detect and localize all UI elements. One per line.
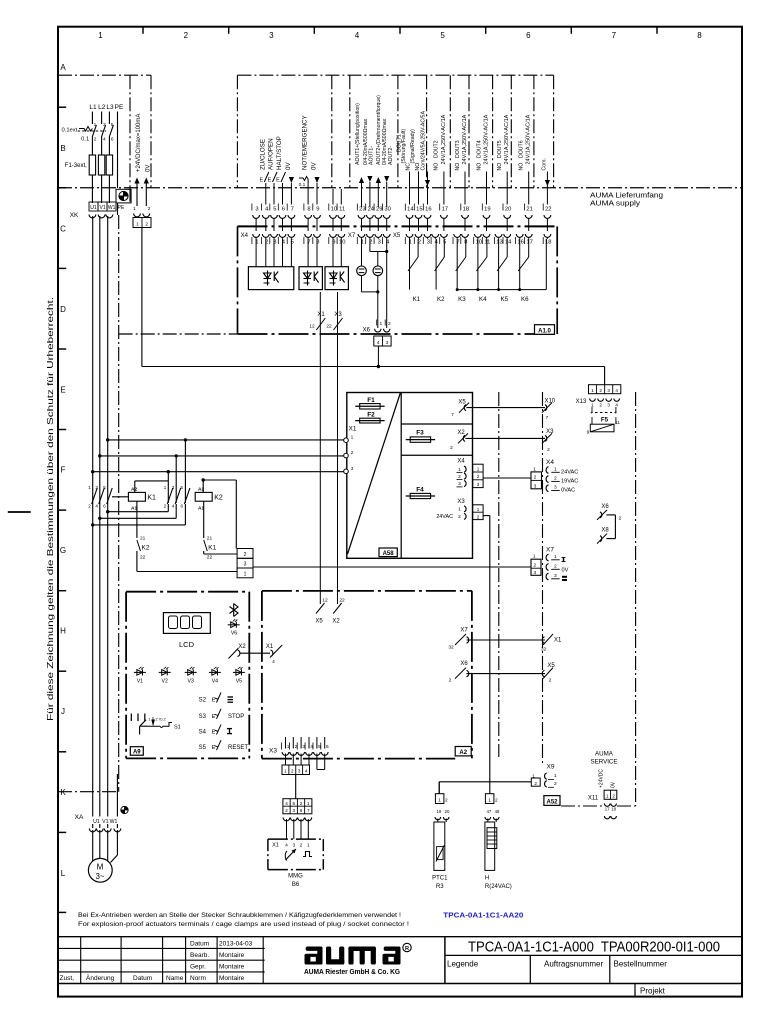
svg-text:22: 22 <box>207 555 213 561</box>
svg-text:X5: X5 <box>547 663 555 669</box>
svg-text:L2: L2 <box>98 104 106 111</box>
svg-text:A2: A2 <box>459 750 467 756</box>
svg-text:17: 17 <box>442 206 448 212</box>
svg-text:3: 3 <box>244 562 247 568</box>
svg-text:A2: A2 <box>131 486 137 492</box>
svg-text:4: 4 <box>272 659 275 665</box>
svg-text:1: 1 <box>379 321 382 327</box>
svg-text:10: 10 <box>339 240 345 246</box>
svg-text:30: 30 <box>384 206 390 212</box>
svg-text:0.1: 0.1 <box>299 182 306 188</box>
svg-text:11: 11 <box>339 206 345 212</box>
svg-text:6: 6 <box>526 31 531 40</box>
svg-text:21: 21 <box>140 536 146 542</box>
svg-text:X1: X1 <box>317 312 325 318</box>
svg-text:24V/1A,250V-AC/1A: 24V/1A,250V-AC/1A <box>526 114 532 164</box>
svg-text:14: 14 <box>407 206 414 212</box>
svg-text:NOT/EMERGENCY: NOT/EMERGENCY <box>302 115 309 170</box>
svg-text:2: 2 <box>534 475 537 481</box>
svg-text:1: 1 <box>307 843 310 849</box>
svg-text:7: 7 <box>546 415 549 421</box>
svg-text:Name: Name <box>166 975 184 982</box>
svg-text:+24VDC: +24VDC <box>599 769 605 788</box>
svg-text:S5: S5 <box>199 745 207 751</box>
svg-text:3: 3 <box>103 122 106 128</box>
svg-text:AOUT2-: AOUT2- <box>388 146 394 165</box>
svg-text:3: 3 <box>298 769 301 774</box>
svg-text:3: 3 <box>386 340 389 346</box>
svg-text:E: E <box>276 178 280 184</box>
svg-text:2: 2 <box>533 562 536 568</box>
svg-text:10: 10 <box>476 240 482 246</box>
svg-text:4: 4 <box>377 340 380 346</box>
svg-text:X5: X5 <box>315 619 323 625</box>
svg-text:For explosion-proof actuators: For explosion-proof actuators terminals … <box>78 921 409 928</box>
svg-text:2: 2 <box>599 388 602 393</box>
svg-text:L: L <box>61 869 66 878</box>
svg-text:2: 2 <box>184 31 189 40</box>
svg-text:+: + <box>614 411 617 417</box>
svg-text:24VAC: 24VAC <box>436 514 453 520</box>
svg-text:(Störung/Fault): (Störung/Fault) <box>401 129 407 164</box>
svg-text:24VAC: 24VAC <box>561 469 578 475</box>
svg-text:1: 1 <box>148 718 150 722</box>
svg-text:22: 22 <box>140 555 146 561</box>
svg-text:K3: K3 <box>458 296 466 303</box>
svg-text:NO: NO <box>455 163 461 171</box>
svg-text:S1: S1 <box>174 725 181 731</box>
svg-text:M: M <box>97 863 104 872</box>
svg-text:TPCA-0A1-1C1-AA20: TPCA-0A1-1C1-AA20 <box>443 911 523 920</box>
svg-text:X4: X4 <box>457 458 465 464</box>
svg-text:21: 21 <box>207 536 213 542</box>
svg-text:+24VDC/max=100mA: +24VDC/max=100mA <box>136 114 142 172</box>
svg-text:24V/1A,250V-AC/1A: 24V/1A,250V-AC/1A <box>441 114 447 164</box>
svg-text:2: 2 <box>145 221 148 227</box>
svg-text:H: H <box>60 627 66 636</box>
svg-text:4: 4 <box>615 388 618 393</box>
svg-text:1: 1 <box>591 388 594 393</box>
svg-text:S2: S2 <box>199 698 207 704</box>
svg-text:ZU/CLOSE: ZU/CLOSE <box>259 139 266 170</box>
svg-text:B: B <box>60 144 65 153</box>
svg-text:A9: A9 <box>133 750 141 756</box>
svg-text:0V: 0V <box>285 162 292 170</box>
svg-text:1: 1 <box>133 206 136 212</box>
svg-text:4: 4 <box>103 137 106 143</box>
svg-text:V5: V5 <box>236 678 242 684</box>
svg-text:3: 3 <box>458 481 461 487</box>
svg-text:V3: V3 <box>188 678 194 684</box>
svg-text:1: 1 <box>136 221 139 227</box>
svg-text:14: 14 <box>505 240 512 246</box>
svg-text:W1: W1 <box>108 205 116 211</box>
svg-text:2: 2 <box>388 321 391 327</box>
svg-text:F3: F3 <box>416 430 424 437</box>
svg-text:PTC1: PTC1 <box>432 876 448 882</box>
svg-text:7: 7 <box>291 206 294 212</box>
svg-text:2: 2 <box>554 476 557 482</box>
svg-text:1: 1 <box>488 797 491 803</box>
svg-text:RESET: RESET <box>228 745 248 751</box>
svg-text:X8: X8 <box>601 528 609 534</box>
svg-text:E: E <box>60 386 65 395</box>
svg-text:X1: X1 <box>349 426 357 433</box>
svg-text:2: 2 <box>291 769 294 774</box>
svg-text:16: 16 <box>425 206 431 212</box>
svg-text:A58: A58 <box>383 551 395 557</box>
svg-text:X3: X3 <box>269 747 277 754</box>
svg-text:F4: F4 <box>416 487 424 494</box>
svg-text:2: 2 <box>351 450 354 456</box>
svg-text:K6: K6 <box>521 296 529 303</box>
svg-text:Montaire: Montaire <box>219 952 245 959</box>
svg-text:X6: X6 <box>460 661 468 667</box>
svg-text:NO: NO <box>434 163 440 171</box>
svg-text:t0.2: t0.2 <box>159 718 165 722</box>
svg-text:(Signal/Ready): (Signal/Ready) <box>410 129 416 164</box>
svg-text:X4: X4 <box>546 459 554 466</box>
svg-text:19: 19 <box>437 809 442 814</box>
svg-text:2013-04-03: 2013-04-03 <box>219 941 253 948</box>
svg-text:3: 3 <box>554 573 557 579</box>
svg-text:J: J <box>61 707 65 716</box>
svg-text:1: 1 <box>98 31 103 40</box>
svg-text:20: 20 <box>505 206 511 212</box>
svg-text:DOUT3: DOUT3 <box>455 140 461 158</box>
svg-text:0.1: 0.1 <box>81 137 89 143</box>
svg-text:Auftragsnummer: Auftragsnummer <box>544 960 603 969</box>
svg-text:DOUT4: DOUT4 <box>476 140 482 158</box>
svg-text:0VAC: 0VAC <box>561 488 575 494</box>
svg-text:NO: NO <box>476 163 482 171</box>
svg-text:22: 22 <box>339 598 345 604</box>
svg-text:2: 2 <box>599 402 602 407</box>
svg-text:X11: X11 <box>588 796 599 802</box>
svg-text:R3: R3 <box>436 884 444 890</box>
svg-text:2: 2 <box>244 552 247 558</box>
svg-text:K: K <box>60 788 66 797</box>
svg-text:V1: V1 <box>100 205 106 211</box>
svg-text:2: 2 <box>450 445 453 451</box>
svg-text:X5: X5 <box>458 399 466 405</box>
svg-text:A1.0: A1.0 <box>538 328 551 334</box>
svg-text:Com.: Com. <box>542 158 548 170</box>
svg-text:22: 22 <box>326 324 332 330</box>
svg-text:X13: X13 <box>576 399 587 405</box>
svg-text:3: 3 <box>378 240 381 246</box>
svg-text:S4: S4 <box>199 730 207 736</box>
svg-text:V4: V4 <box>212 678 218 684</box>
svg-text:20: 20 <box>445 809 450 814</box>
svg-text:1: 1 <box>477 466 480 471</box>
svg-text:X1: X1 <box>266 644 274 650</box>
svg-text:K2: K2 <box>214 495 223 502</box>
svg-text:1: 1 <box>554 773 557 779</box>
svg-text:3~: 3~ <box>95 872 104 881</box>
svg-text:E: E <box>259 178 263 184</box>
svg-text:1: 1 <box>477 507 480 512</box>
svg-text:Norm: Norm <box>190 975 206 982</box>
svg-text:F: F <box>61 466 66 475</box>
svg-text:3: 3 <box>607 402 610 407</box>
svg-text:Montaire: Montaire <box>219 975 245 982</box>
svg-text:K1: K1 <box>413 296 421 303</box>
svg-text:2: 2 <box>445 797 448 803</box>
svg-text:6: 6 <box>326 744 329 750</box>
svg-text:V6: V6 <box>231 631 237 637</box>
svg-text:2: 2 <box>554 564 557 570</box>
svg-text:AOUT1-: AOUT1- <box>369 146 375 165</box>
svg-text:3: 3 <box>607 388 610 393</box>
svg-text:HALT/STOP: HALT/STOP <box>276 136 283 170</box>
svg-text:1: 1 <box>438 797 441 803</box>
svg-text:2: 2 <box>155 718 157 722</box>
svg-text:6: 6 <box>282 206 285 212</box>
svg-text:1: 1 <box>606 794 609 799</box>
svg-text:B6: B6 <box>292 882 300 888</box>
svg-text:X7: X7 <box>546 547 554 554</box>
svg-text:PE: PE <box>118 205 125 211</box>
svg-text:3: 3 <box>533 570 536 576</box>
svg-text:9: 9 <box>316 206 319 212</box>
svg-text:7: 7 <box>451 412 454 418</box>
svg-text:U1: U1 <box>90 205 97 211</box>
svg-text:16: 16 <box>517 240 523 246</box>
svg-text:DOUT5: DOUT5 <box>497 140 503 158</box>
svg-text:18: 18 <box>463 206 469 212</box>
svg-text:DOUT6: DOUT6 <box>519 140 525 158</box>
svg-text:XK: XK <box>70 212 79 219</box>
svg-text:47: 47 <box>487 809 492 814</box>
svg-text:AUMA: AUMA <box>595 751 614 758</box>
svg-text:L3: L3 <box>106 104 114 111</box>
svg-text:1: 1 <box>284 769 287 774</box>
svg-text:PE: PE <box>115 104 124 111</box>
svg-text:XA: XA <box>75 814 84 821</box>
svg-text:R(24VAC): R(24VAC) <box>485 884 512 890</box>
svg-text:F5: F5 <box>601 417 609 424</box>
svg-text:NO: NO <box>519 163 525 171</box>
svg-text:2: 2 <box>547 447 550 453</box>
svg-text:2: 2 <box>495 797 498 803</box>
svg-text:21: 21 <box>526 206 532 212</box>
svg-text:2: 2 <box>300 843 303 849</box>
svg-text:Bei Ex-Antrieben werden an Ste: Bei Ex-Antrieben werden an Stelle der St… <box>78 912 401 919</box>
svg-text:2: 2 <box>554 781 557 787</box>
svg-text:17: 17 <box>605 807 610 812</box>
svg-text:10: 10 <box>331 206 337 212</box>
svg-text:LCD: LCD <box>179 640 195 649</box>
svg-text:DOUT2: DOUT2 <box>434 140 440 158</box>
svg-text:X5: X5 <box>393 233 401 239</box>
svg-text:Für diese Zeichnung gelten die: Für diese Zeichnung gelten die Bestimmun… <box>45 297 55 721</box>
svg-text:Gepr.: Gepr. <box>190 964 206 971</box>
svg-text:AUF/OPEN: AUF/OPEN <box>268 138 275 170</box>
svg-text:AUMA supply: AUMA supply <box>590 199 640 208</box>
svg-text:K2: K2 <box>142 545 150 552</box>
svg-text:7: 7 <box>612 31 617 40</box>
svg-text:15: 15 <box>416 206 422 212</box>
svg-text:18: 18 <box>611 807 616 812</box>
svg-text:1: 1 <box>533 466 536 472</box>
svg-text:3: 3 <box>292 808 295 813</box>
svg-text:X2: X2 <box>238 644 246 650</box>
svg-text:0V: 0V <box>311 162 318 170</box>
svg-text:K1: K1 <box>147 495 156 502</box>
svg-text:6: 6 <box>111 137 114 143</box>
svg-text:X10: X10 <box>544 398 555 404</box>
svg-text:MMG: MMG <box>288 874 303 880</box>
svg-text:X9: X9 <box>547 764 555 771</box>
svg-text:X1: X1 <box>554 638 562 644</box>
svg-text:Datum: Datum <box>133 975 152 982</box>
svg-text:1: 1 <box>554 467 557 473</box>
svg-text:V2: V2 <box>162 678 168 684</box>
svg-text:2: 2 <box>458 474 461 480</box>
svg-text:A2: A2 <box>198 486 204 492</box>
svg-text:3: 3 <box>255 206 258 212</box>
svg-text:3: 3 <box>477 482 480 487</box>
svg-text:48: 48 <box>495 809 500 814</box>
svg-text:12: 12 <box>309 324 315 330</box>
svg-text:K2: K2 <box>437 296 445 303</box>
svg-text:F1-3ext,: F1-3ext, <box>65 163 87 169</box>
svg-text:X6: X6 <box>363 328 371 334</box>
svg-text:X3: X3 <box>546 429 554 435</box>
svg-text:2: 2 <box>612 794 615 799</box>
svg-text:3: 3 <box>292 843 295 849</box>
svg-text:23: 23 <box>359 206 365 212</box>
svg-text:4: 4 <box>355 31 360 40</box>
svg-text:2: 2 <box>477 515 480 520</box>
svg-text:13: 13 <box>496 240 502 246</box>
svg-text:5: 5 <box>440 31 445 40</box>
svg-text:X6: X6 <box>601 504 609 510</box>
svg-text:17: 17 <box>526 240 532 246</box>
svg-text:W1: W1 <box>110 819 118 825</box>
svg-text:S3: S3 <box>199 714 207 720</box>
svg-text:2: 2 <box>477 474 480 479</box>
svg-text:0V: 0V <box>562 568 569 574</box>
svg-text:19VAC: 19VAC <box>561 479 578 485</box>
svg-text:V1: V1 <box>137 678 143 684</box>
svg-text:1: 1 <box>94 122 97 128</box>
svg-text:4: 4 <box>305 769 308 774</box>
svg-text:4: 4 <box>615 402 618 407</box>
svg-text:1: 1 <box>351 435 354 441</box>
svg-text:Com/24V/5A,250V-AC/5A: Com/24V/5A,250V-AC/5A <box>421 111 427 171</box>
svg-text:NO: NO <box>497 163 503 171</box>
svg-text:Änderung: Änderung <box>86 974 115 982</box>
svg-text:E: E <box>268 178 272 184</box>
svg-text:24V/1A,250V-AC/1A: 24V/1A,250V-AC/1A <box>462 114 468 164</box>
svg-text:29: 29 <box>376 206 382 212</box>
svg-text:3: 3 <box>554 485 557 491</box>
svg-text:5: 5 <box>273 206 276 212</box>
svg-text:Zust,: Zust, <box>60 975 75 982</box>
svg-text:5: 5 <box>292 801 295 806</box>
svg-text:X7: X7 <box>460 628 468 634</box>
svg-text:R: R <box>405 946 409 952</box>
svg-text:X3: X3 <box>334 312 342 318</box>
svg-text:K4: K4 <box>479 296 487 303</box>
svg-text:7: 7 <box>307 808 310 813</box>
svg-text:2: 2 <box>534 781 537 787</box>
svg-text:0V: 0V <box>145 165 151 172</box>
svg-text:D: D <box>60 305 66 314</box>
svg-text:X4: X4 <box>241 233 249 239</box>
svg-text:U1: U1 <box>93 819 100 825</box>
svg-text:K1: K1 <box>208 545 216 552</box>
svg-text:C: C <box>60 224 66 233</box>
svg-text:0V: 0V <box>611 781 617 788</box>
svg-text:22: 22 <box>545 206 551 212</box>
svg-text:Projekt: Projekt <box>640 987 666 996</box>
svg-text:2: 2 <box>619 516 622 522</box>
svg-text:Montaire: Montaire <box>219 964 245 971</box>
svg-text:3: 3 <box>534 483 537 489</box>
svg-text:6: 6 <box>300 808 303 813</box>
svg-text:F1: F1 <box>367 397 375 404</box>
svg-text:2: 2 <box>449 678 452 684</box>
svg-text:1: 1 <box>591 402 594 407</box>
svg-text:1: 1 <box>458 467 461 473</box>
svg-text:32: 32 <box>448 645 454 651</box>
svg-text:9: 9 <box>587 430 590 436</box>
svg-text:AOUT1+(Stellung/position): AOUT1+(Stellung/position) <box>355 103 361 165</box>
svg-text:2: 2 <box>549 678 552 684</box>
svg-text:F2: F2 <box>367 411 375 418</box>
svg-text:SERVICE: SERVICE <box>590 759 617 766</box>
svg-text:G: G <box>60 546 66 555</box>
svg-text:5: 5 <box>111 122 114 128</box>
svg-text:2: 2 <box>458 514 461 520</box>
svg-text:V1: V1 <box>102 819 108 825</box>
svg-text:12: 12 <box>322 598 328 604</box>
svg-text:Legende: Legende <box>447 960 479 969</box>
svg-text:1: 1 <box>307 801 310 806</box>
svg-text:8: 8 <box>697 31 702 40</box>
svg-text:H: H <box>485 876 489 882</box>
svg-text:24V/1A,250V-AC/1A: 24V/1A,250V-AC/1A <box>484 114 490 164</box>
svg-text:L1: L1 <box>89 104 97 111</box>
svg-text:X3: X3 <box>457 499 465 505</box>
svg-text:A52: A52 <box>546 799 558 805</box>
svg-text:X1: X1 <box>272 843 279 849</box>
svg-text:TPCA-0A1-1C1-A000 TPA00R200-0: TPCA-0A1-1C1-A000 TPA00R200-0I1-000 <box>468 940 720 956</box>
svg-text:32: 32 <box>541 647 547 653</box>
svg-text:0.1ext: 0.1ext <box>62 128 78 134</box>
svg-text:4: 4 <box>285 843 288 849</box>
svg-text:1: 1 <box>533 554 536 560</box>
svg-text:1: 1 <box>554 554 557 560</box>
svg-text:Bearb.: Bearb. <box>190 952 209 959</box>
svg-text:A: A <box>60 63 66 72</box>
svg-text:2: 2 <box>148 206 151 212</box>
svg-text:STOP: STOP <box>228 714 244 720</box>
svg-text:8: 8 <box>307 206 310 212</box>
svg-text:2: 2 <box>94 137 97 143</box>
svg-text:24V/1A,250V-AC/1A: 24V/1A,250V-AC/1A <box>504 114 510 164</box>
svg-text:3: 3 <box>351 466 354 472</box>
svg-text:3: 3 <box>269 31 274 40</box>
svg-text:Bestellnummer: Bestellnummer <box>614 960 668 969</box>
svg-text:19: 19 <box>484 206 490 212</box>
svg-text:X2: X2 <box>457 430 465 436</box>
svg-text:2: 2 <box>300 801 303 806</box>
svg-text:AUMA Riester GmbH & Co. KG: AUMA Riester GmbH & Co. KG <box>304 967 400 976</box>
